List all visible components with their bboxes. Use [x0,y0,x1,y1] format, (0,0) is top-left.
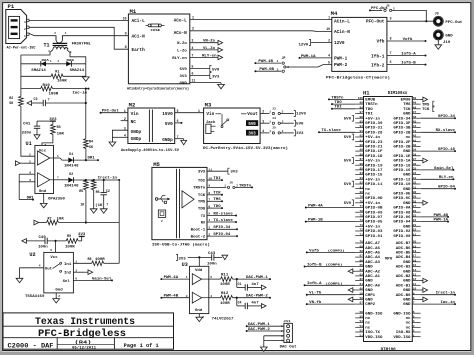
svg-text:GPIO-0E: GPIO-0E [393,192,410,196]
svg-text:?: ? [106,203,108,207]
pin numbers J11 [281,325,283,342]
ground J11 [260,347,267,351]
svg-text:15: 15 [413,264,417,267]
svg-text:ACin-N: ACin-N [334,29,350,35]
svg-text:PWM-4B: PWM-4B [433,214,448,218]
svg-text:GPIO-1A: GPIO-1A [393,159,410,163]
svg-text:51: 51 [360,334,364,337]
net 5V0 feed e [344,200,354,206]
pin number U1.7 [57,177,59,180]
svg-text:J3: J3 [272,106,276,110]
wire M2.4 gnd [112,136,128,138]
svg-text:63: 63 [360,274,364,277]
label R9 100R [65,245,76,249]
svg-text:(1K: (1K [95,203,103,208]
label R12 [221,291,228,295]
net 5V0 feed d [344,181,354,187]
wire diode row [21,63,86,65]
svg-text:GPIO-08: GPIO-08 [393,210,410,214]
svg-text:GPIO-06: GPIO-06 [393,215,410,219]
svg-text:TMS: TMS [198,201,206,205]
svg-text:GPIO-34: GPIO-34 [393,116,410,120]
net PWM-4A to H1 [305,204,355,208]
label C40 [39,235,46,239]
pin number U2.4 [39,265,41,268]
svg-text:VN-fb: VN-fb [309,300,321,305]
svg-text:R7: R7 [48,218,52,222]
title divider 1 [3,325,174,327]
svg-text:41: 41 [413,139,417,142]
svg-text:ADC-A7: ADC-A7 [365,241,380,245]
svg-text:05/12/2011: 05/12/2011 [72,346,97,351]
label U3 [182,262,188,268]
svg-text:58: 58 [360,297,364,300]
svg-text:GPIO-18: GPIO-18 [393,163,410,167]
wire P1.2 to M1.Earth [29,27,128,49]
label DIM100xx [388,92,408,96]
label In1 U2 [64,262,71,266]
svg-text:R3: R3 [57,126,61,130]
ground C43 [222,255,228,259]
svg-text:6: 6 [29,172,31,175]
wire C3 row [32,102,87,104]
label 220n [22,131,32,135]
svg-text:54: 54 [360,320,364,323]
net Iac-in from H1 [421,300,456,305]
resistor R9 [66,239,78,244]
svg-text:C43: C43 [208,251,215,255]
jumper J4 5V0 [260,116,303,126]
label 3V3 M3 [246,130,258,137]
label GND M1 [180,82,187,86]
svg-text:GND: GND [403,260,410,264]
svg-text:46: 46 [413,116,417,119]
wire M1.2 to M4.10 [190,30,332,33]
svg-text:1: 1 [57,155,59,158]
connector P1 [6,3,29,43]
wire M1.3 VN-Zo [190,40,223,45]
net 5V0 feed b [344,134,354,140]
svg-text:ADC-B1: ADC-B1 [396,283,411,287]
svg-text:GPIO-17: GPIO-17 [365,168,382,172]
svg-text:D1: D1 [69,152,73,156]
jumper J3 12V0 [260,106,306,116]
label R3 [57,126,61,130]
resistor R4 [84,139,89,161]
resistor R6 [91,180,96,209]
label R6 [96,191,100,195]
svg-text:GND: GND [403,224,410,228]
svg-text:16: 16 [413,259,417,262]
svg-text:GPIO-05: GPIO-05 [365,220,382,224]
svg-text:ACinEntry+CycleSimulator(macro: ACinEntry+CycleSimulator(macro) [127,86,189,91]
label M3 [205,101,212,108]
power 3V3 R9 [78,233,86,241]
svg-text:1: 1 [65,32,67,35]
pin numbers T1 [48,32,72,54]
svg-text:85: 85 [360,168,364,171]
svg-text:J5: J5 [272,126,276,130]
svg-text:TX-slave: TX-slave [321,128,340,133]
label N-Zo [177,42,187,46]
svg-text:4: 4 [262,129,264,133]
svg-text:TDO: TDO [198,207,206,211]
wire left rail [20,55,22,96]
pin number M1.2 [192,28,194,32]
svg-text:70: 70 [360,241,364,244]
label C2 value [106,203,108,207]
wire M5.6 TDO [207,204,223,209]
svg-text:5V0: 5V0 [344,183,351,187]
svg-text:10K: 10K [57,218,65,222]
svg-text:2: 2 [24,28,26,31]
pin number M4.6 [390,60,392,64]
svg-text:18: 18 [413,250,417,253]
wire M5.8 TCK [207,191,223,196]
svg-text:GPIO-2F: GPIO-2F [393,140,410,144]
label FR307FNL [72,42,91,46]
ground J10 [435,45,442,49]
svg-text:10: 10 [326,27,330,31]
wire M1.1 to M4.1 [190,19,332,21]
label DAC-PWM-1 b [248,323,270,327]
label T1 [44,42,50,48]
label PWM-1 M4 [334,55,348,61]
svg-text:PWM-4A: PWM-4A [164,276,180,280]
svg-text:94: 94 [360,125,364,128]
wire U2.4 to gnd [20,268,44,279]
svg-text:44: 44 [413,125,417,128]
diode D8B [66,61,71,67]
capacitor C4 [237,298,266,309]
label macro M5 [152,242,210,247]
svg-text:10: 10 [413,288,417,291]
svg-text:GPIO-39: GPIO-39 [365,121,382,125]
svg-text:220n: 220n [22,131,32,135]
svg-text:GND: GND [403,173,410,177]
svg-text:TRSTn: TRSTn [239,183,251,187]
label R11 [221,272,228,276]
svg-text:C4: C4 [238,301,242,305]
svg-text:TCK: TCK [422,108,430,112]
svg-text:12V0: 12V0 [296,113,306,117]
usb icon M5 [155,196,170,204]
svg-text:1: 1 [24,35,26,38]
svg-text:GND: GND [403,149,410,153]
svg-text:5V0: 5V0 [165,121,173,127]
net TDI to H1 [331,106,355,110]
svg-text:4n7: 4n7 [251,301,258,305]
net 3V3 U3 [176,254,212,261]
svg-text:ACi-N: ACi-N [132,33,146,39]
svg-text:ADC-B4: ADC-B4 [396,255,411,259]
label M5 [153,161,160,168]
svg-text:TDI: TDI [334,106,341,110]
svg-text:ADC-A6: ADC-A6 [365,246,380,250]
svg-text:CMP2: CMP2 [365,302,375,306]
label 12V0 M4 [334,40,345,46]
svg-text:TX: TX [201,215,206,219]
svg-text:ADC-B0: ADC-B0 [396,293,411,297]
label PFC-Out M4 [366,19,385,25]
label R12 100R [220,301,230,305]
svg-text:68: 68 [360,250,364,253]
svg-text:6: 6 [208,204,210,208]
svg-text:AC-Pwr-ent-IEC: AC-Pwr-ent-IEC [7,47,36,51]
svg-text:7: 7 [57,177,59,180]
pin number M1.10 [123,17,127,21]
svg-text:FR307FNL: FR307FNL [72,42,91,46]
label VN-Zo [203,40,215,44]
label net 5V0 M1 [210,66,219,73]
ground M2 pins [109,142,116,146]
svg-text:GPIO-15: GPIO-15 [365,173,382,177]
svg-text:ADC-A0: ADC-A0 [365,283,380,287]
wire U1.7 out [54,179,69,181]
label Jack M3 [206,120,216,124]
svg-text:75: 75 [360,215,364,218]
wire M2.7 gnd [175,139,184,141]
svg-text:1: 1 [186,276,188,279]
wire M1.4 VL-Zo [190,48,223,53]
port CMP c [348,297,355,302]
wire C40 row [26,240,81,242]
svg-text:PFC-Out: PFC-Out [366,19,385,25]
svg-text:71: 71 [360,233,364,236]
wire U1.5 input [19,181,35,183]
resistor R8 [92,261,104,266]
isolation bars M5 [177,169,180,238]
svg-text:T1: T1 [44,42,50,48]
pin number U3.1 [186,276,188,279]
wire M5.5 RX-slave [207,211,237,216]
label C4 [238,301,242,305]
pin number M2.7 [177,135,179,139]
svg-text:42: 42 [413,135,417,138]
label In2 U2 [64,270,71,274]
svg-text:VDD-ISO: VDD-ISO [393,335,410,339]
svg-text:R11: R11 [221,272,228,276]
pin numbers zeners [50,60,60,63]
label R4 [89,140,93,144]
svg-text:5: 5 [50,249,52,252]
svg-text:62: 62 [360,278,364,281]
jumper J8 [380,3,395,11]
svg-text:2: 2 [58,295,60,298]
svg-text:3V3: 3V3 [180,75,187,79]
isolation bars M2 [149,110,152,143]
ground C41 [34,135,40,139]
svg-text:GND: GND [365,298,372,302]
svg-text:7: 7 [177,135,179,139]
label R8 [88,258,92,262]
capacitor C41 [34,121,40,135]
label Iofb-A [401,51,416,56]
svg-text:Gnd: Gnd [195,308,202,313]
node PWM-4B [160,297,189,299]
resistor R7 [47,220,59,225]
svg-text:TRSTn: TRSTn [365,102,377,106]
port C40 [22,239,27,244]
label GND jack [445,35,453,39]
svg-text:RLY-en: RLY-en [439,176,454,180]
svg-text:5V0: 5V0 [248,123,256,127]
svg-text:82: 82 [360,182,364,185]
label PFC-Out top [371,6,388,10]
svg-text:Vofb: Vofb [403,37,414,42]
svg-text:GND: GND [403,298,410,302]
label DAC Out [280,346,297,350]
svg-text:ACo-N: ACo-N [174,30,188,36]
label R9 [67,235,71,239]
pin number U2.3 [75,269,77,272]
ground H1 a [421,97,428,102]
svg-text:5V0: 5V0 [180,68,187,72]
label Ifb-1 M4 [371,53,385,59]
H1 pin rows [355,97,420,339]
wire J8 to jack [392,10,427,21]
svg-text:R10: R10 [43,84,50,88]
ground H1 f [421,297,428,302]
wire DR1 vertical [19,174,34,200]
svg-text:47: 47 [413,111,417,114]
label C1 4n7 [251,282,258,286]
svg-text:34: 34 [413,172,417,175]
svg-text:nc: nc [365,192,370,196]
svg-text:5V0: 5V0 [344,117,351,121]
wire U2.3 port [73,270,92,275]
svg-text:21: 21 [413,233,417,236]
label GNDp M2b [131,136,142,142]
label C3 value [48,99,50,103]
port R7 [34,220,39,225]
wire M2.6 5V0 stub [175,122,183,124]
pin number M4.1 [328,15,330,19]
jumper J5 3V3 [260,126,303,136]
buffer U3A [192,274,209,285]
svg-text:TDO: TDO [365,107,372,111]
ground H1 d [421,278,428,283]
title PFC-Bridgeless [38,328,126,340]
svg-text:U2: U2 [29,252,35,258]
svg-text:Ifb-1: Ifb-1 [371,53,385,59]
svg-text:JP: JP [282,56,286,60]
pin number M1.4 [192,46,194,50]
svg-text:GPIO-0B: GPIO-0B [365,206,382,210]
net TRSTn to H1 [328,96,355,100]
node Iac-in [72,88,89,96]
net VL-fb to H1 [306,291,355,296]
capacitor C1 [237,279,266,291]
svg-text:nc: nc [365,325,370,329]
label 5V0 M3 [246,120,258,127]
node DAC-PWM-2 b [246,330,284,332]
svg-text:TDO: TDO [334,101,341,105]
svg-text:GPIO-01: GPIO-01 [365,234,382,238]
svg-text:100n: 100n [38,244,48,248]
wire U2.1 to R8 [73,262,119,264]
wire R2 to U1.2 [21,106,35,156]
label 10K [57,218,65,222]
svg-text:100n: 100n [207,262,217,266]
svg-text:J10: J10 [443,41,450,45]
wire R3 to U1 Vcc [42,135,53,146]
pin number M4.5 [328,60,330,64]
capacitor C2 [101,180,107,209]
svg-text:M4: M4 [331,10,338,17]
svg-text:1: 1 [124,109,126,113]
svg-text:TX-slave: TX-slave [213,218,232,222]
label Out U2 [45,267,52,271]
wire M5.10 TDI [207,176,223,181]
svg-text:(R4): (R4) [75,341,92,346]
wire M1.11 gnd [190,83,221,85]
svg-text:76: 76 [360,210,364,213]
svg-text:AuxSupply-400Vin-to-15V-5V: AuxSupply-400Vin-to-15V-5V [121,148,180,153]
svg-text:GPIO-3B: GPIO-3B [393,126,410,130]
svg-text:R8: R8 [88,258,92,262]
svg-text:ADC-B2: ADC-B2 [396,274,411,278]
title divider 2 [3,337,174,339]
svg-text:GPIO-1E: GPIO-1E [393,154,410,158]
label 1N4148 D2 [64,183,79,187]
net 12V0 to M4.2 [299,40,332,48]
svg-text:R6: R6 [96,191,100,195]
label PWM-2 M4 [334,62,348,68]
pin number M2.1 [124,109,126,113]
label DAC-PWM-2 a [246,295,268,299]
svg-text:3V3: 3V3 [296,132,303,136]
label P1 pin numbers [24,21,26,38]
ground U2.2 [53,299,60,303]
svg-text:45: 45 [413,121,417,124]
label PWM-1A M4 [301,55,317,59]
wire M5.3 GPIO-34 [207,225,238,230]
svg-text:DC-PwrEntry-9Vin-15V-5V-3V3(ma: DC-PwrEntry-9Vin-15V-5V-3V3(macro) [203,146,288,150]
svg-text:TDI: TDI [198,179,205,183]
label macro M1 [127,86,189,91]
label R11 100R [220,282,230,286]
svg-text:PWM-1A: PWM-1A [433,219,449,223]
svg-text:VL-fb: VL-fb [309,291,321,296]
svg-text:69: 69 [360,245,364,248]
label 1N4148 D1 [64,164,79,168]
pin number M1.8 [125,46,127,50]
connector J9 PFC-Out jack [433,16,443,26]
svg-text:MPU: MPU [385,257,392,261]
svg-text:100R: 100R [220,282,230,286]
label C4 4n7 [251,301,258,305]
pin number M2.6 [177,119,179,123]
resistor R1 [51,74,63,79]
svg-text:2: 2 [208,232,210,236]
svg-text:U1: U1 [26,141,32,147]
diode D8A [41,61,46,67]
wire M2.3 gnd [112,130,128,142]
svg-text:24: 24 [413,219,417,222]
svg-text:33: 33 [413,177,417,180]
wire D2 to Irect node [74,179,121,181]
svg-text:28: 28 [413,200,417,203]
svg-text:GPIO-31: GPIO-31 [365,126,382,130]
node PWM-1B [254,62,281,64]
macro M2 box [128,108,175,144]
ground U2.4 [16,278,23,282]
svg-text:73: 73 [360,224,364,227]
wire U3.5 R11 [209,278,271,280]
port CMP b [348,288,355,293]
title date [72,346,97,351]
